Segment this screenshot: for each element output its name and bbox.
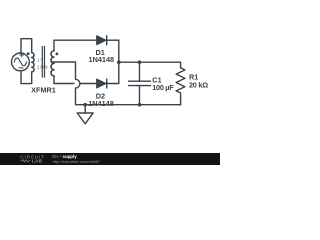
wire D1 cathode to output corner <box>107 39 119 41</box>
node C1 bottom junction dot <box>138 103 142 107</box>
diode D2 <box>97 79 107 88</box>
transformer XFMR1 primary winding <box>32 53 34 72</box>
CircuitLab logo <box>20 155 45 164</box>
watermark bar <box>0 153 220 165</box>
transformer XFMR1 secondary winding <box>51 51 54 76</box>
wire output vertical (D1 to D2) <box>107 40 119 83</box>
svg-text:20 kΩ: 20 kΩ <box>189 81 208 90</box>
node ground junction dot <box>83 103 87 107</box>
svg-text:http://circuitlab.com/c9kt57: http://circuitlab.com/c9kt57 <box>53 159 101 164</box>
svg-text:LAB: LAB <box>32 159 43 164</box>
wire source bottom to primary bottom <box>21 71 32 84</box>
node output junction dot <box>117 60 121 64</box>
capacitor C1 <box>129 62 151 104</box>
svg-text:1N4148: 1N4148 <box>88 99 114 108</box>
wire source top to primary top <box>21 39 32 53</box>
wire secondary top to D1 anode <box>54 40 97 51</box>
node C1 top junction dot <box>138 60 142 64</box>
svg-text:1 V: 1 V <box>37 57 43 62</box>
svg-text:1N4148: 1N4148 <box>89 55 115 64</box>
wire top rail output to C1 and R1 <box>119 62 181 68</box>
diode D1 <box>97 36 107 45</box>
transformer core <box>42 47 44 78</box>
primary polarity dot <box>27 52 30 55</box>
secondary polarity dot <box>56 53 59 56</box>
ground <box>77 105 93 124</box>
svg-text:100 µF: 100 µF <box>152 83 174 92</box>
resistor R1 <box>176 68 185 105</box>
AC source V1 <box>12 53 30 71</box>
wire secondary bottom to D2 anode <box>54 76 97 84</box>
svg-text:XFMR1: XFMR1 <box>31 86 56 95</box>
wire center tap to ground rail (with hop over D2 wire) <box>52 62 85 105</box>
svg-text:1 kHz: 1 kHz <box>37 65 48 70</box>
wire bottom rail (ground to C1/R1 bottoms) <box>85 104 180 106</box>
